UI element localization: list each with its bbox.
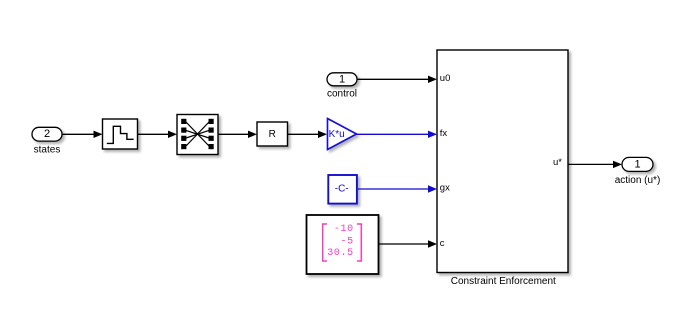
svg-text:control: control (327, 89, 357, 100)
svg-text:fx: fx (440, 128, 448, 139)
inport 1 (states), port 2 (32, 127, 62, 141)
matrix values (327, 224, 353, 259)
svg-text:states: states (34, 145, 61, 156)
inport 2 (control), port 1 (327, 73, 357, 86)
svg-text:-10: -10 (334, 224, 354, 235)
svg-text:-5: -5 (340, 236, 353, 247)
constant matrix block (307, 215, 379, 274)
selector block (177, 115, 218, 155)
wire R -> gain (288, 133, 320, 135)
svg-text:Constraint Enforcement: Constraint Enforcement (451, 276, 556, 287)
svg-text:gx: gx (440, 183, 450, 194)
svg-text:c: c (440, 238, 445, 249)
svg-text:action (u*): action (u*) (615, 175, 661, 186)
step/stair signal block (103, 119, 138, 149)
blue wire gain -> fx (357, 133, 430, 135)
matrix brackets (magenta) (323, 224, 327, 261)
blue wire -C- -> gx (358, 188, 429, 190)
outport 1 (action u*) (622, 157, 653, 171)
wire states -> step block (62, 133, 95, 135)
gain K*u (blue) (328, 119, 357, 150)
svg-text:K*u: K*u (329, 129, 345, 140)
svg-text:30.5: 30.5 (327, 248, 353, 259)
wire selector -> R (218, 133, 249, 135)
svg-text:2: 2 (44, 128, 50, 140)
wire step -> selector (138, 133, 170, 135)
constant -C- (blue) (328, 175, 357, 204)
wire control -> u0 (357, 78, 429, 80)
svg-text:u0: u0 (440, 73, 451, 84)
svg-text:1: 1 (339, 73, 345, 85)
svg-text:-C-: -C- (335, 184, 349, 195)
wire matrix -> c (379, 243, 430, 245)
svg-text:u*: u* (553, 157, 562, 168)
wire u* -> outport (568, 163, 614, 165)
stair icon (107, 126, 134, 143)
Constraint Enforcement block (437, 50, 568, 273)
R block (257, 122, 288, 146)
svg-text:1: 1 (634, 158, 640, 170)
svg-text:R: R (269, 129, 276, 140)
